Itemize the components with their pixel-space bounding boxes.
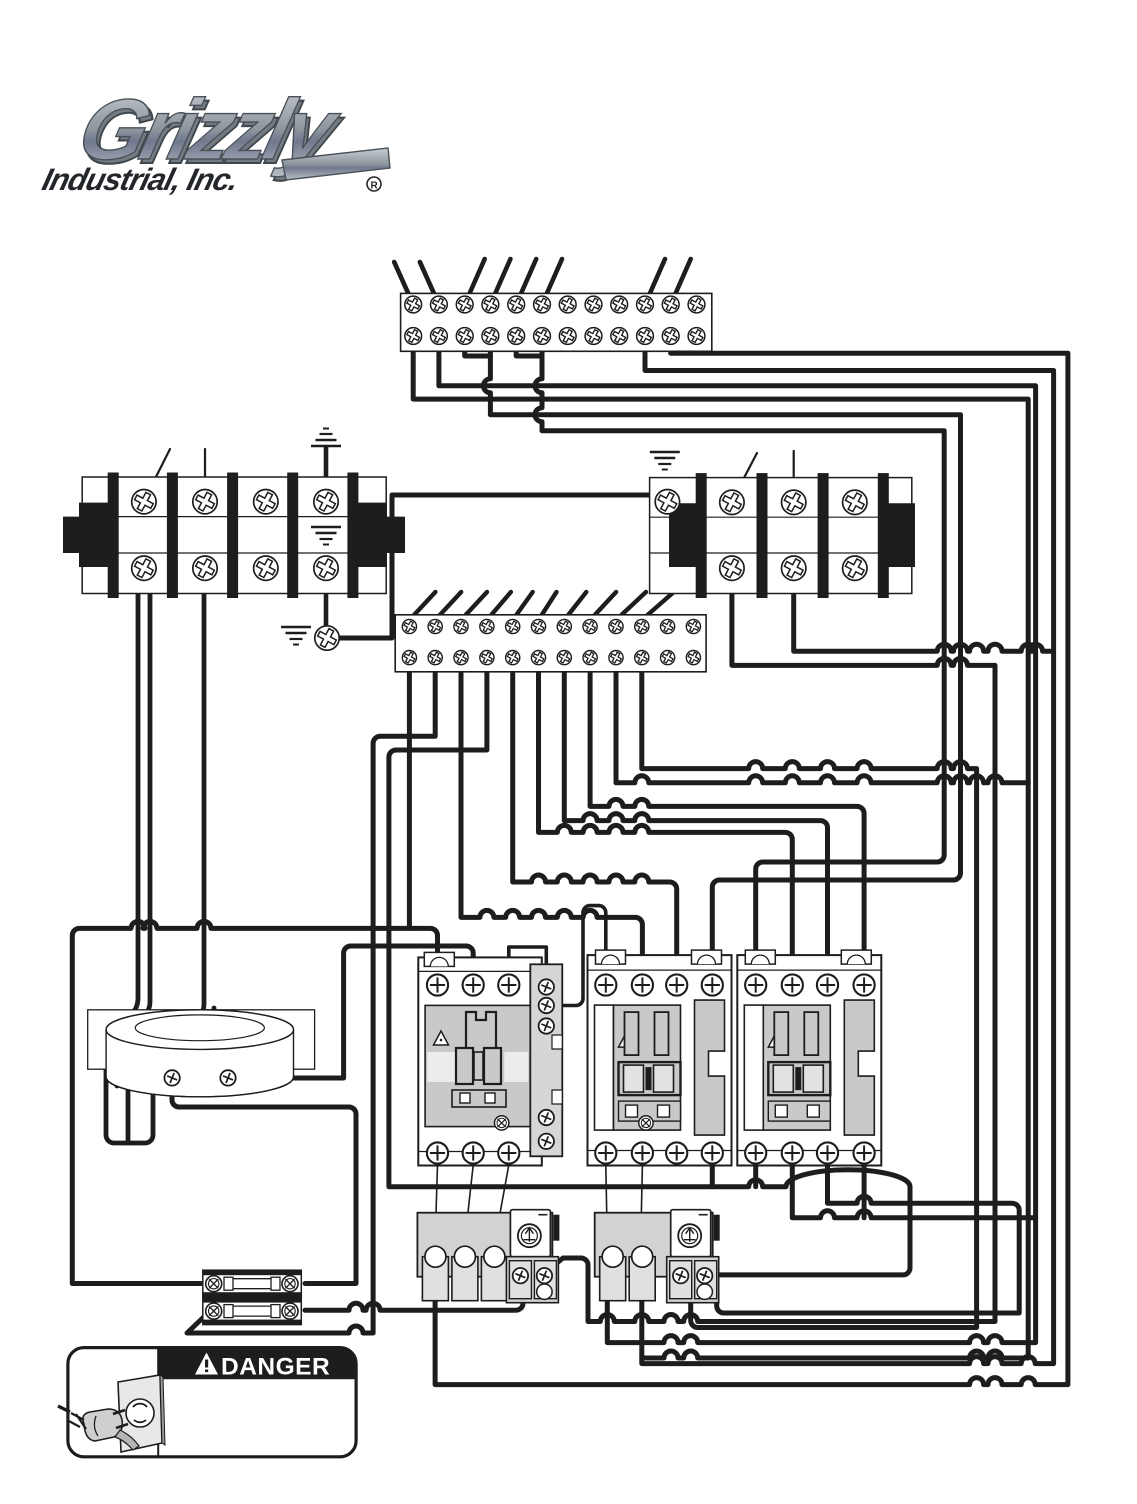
wire primary 3 [128,580,204,1086]
K2 terminals [595,974,616,995]
Grizzly Industrial logo [39,81,390,197]
wire K1 to OL1 [435,1165,437,1243]
contactor K3 [737,950,881,1165]
wire lead-in [487,592,511,620]
wire TB-R2 to OL1 95 [546,593,995,1322]
ground symbol at chassis screw [281,627,311,645]
wire lead-in [490,259,510,305]
wire ground bus [339,495,652,638]
wire lead-in [435,592,461,620]
wire TB10 to OL2 hole2 [642,336,1054,1364]
wire MS3 to K2 L2 [461,658,642,985]
wire primary 1 [106,580,138,1086]
wire TB2 to OL2 hole1 [439,336,1036,1343]
wire ground lead [324,447,329,490]
wire lead-in [516,259,536,305]
TB-L mount tabs [63,517,82,553]
K3 terminals [745,974,766,995]
wire K1 L3 to aux [509,947,547,985]
wire MS5 to K2 L3 [513,658,677,985]
wire K3 T3 to OL2 96 [700,1153,1019,1313]
ground symbol above TB-L col4 [311,429,341,447]
wire lead-in [542,259,562,305]
wire lead-in [642,592,674,620]
wire MS8 to K3 L4 [590,658,864,985]
wire K2 to OL2 [606,1165,608,1243]
wire lead-in [461,592,487,620]
wire winding loop [106,1086,153,1143]
wire primary 2 [117,580,150,1086]
ground symbol TB-L mid [311,527,341,545]
overload relay OL1 [417,1115,559,1303]
wire lead-in [513,592,533,620]
wire MS2 to fuse2 [187,658,435,1333]
wire TB-R3 tie [794,593,1054,651]
wire lead-in [394,262,413,305]
transformer T1 [88,1010,315,1097]
ground symbol above TB-R [650,452,680,470]
fuse F2 [203,1298,301,1325]
wire K3 T4 drop [862,1153,867,1218]
DANGER warning label [68,1348,356,1457]
terminal block TB-A [401,293,712,351]
wire XFMR S2 to K1 L2 [240,946,473,1078]
wire lead-in [616,592,646,620]
wire TB4 to K2 A4 [483,336,960,985]
wire K3 T2 drop [792,1153,1035,1218]
plug and outlet art [58,1375,165,1452]
terminal block TB-L [79,473,387,599]
fuse F1 [203,1270,301,1297]
wire lead-in [539,592,557,620]
wire lead-in [420,262,439,305]
wire K2 to OL2 [641,1165,643,1243]
K1 terminals [427,974,448,995]
contactor K1 [418,952,542,1165]
chassis ground screw [315,626,340,651]
TB-R ground screw [655,489,680,514]
svg-text:DANGER: DANGER [221,1353,330,1380]
terminal block TB-R [650,473,915,598]
wire lead-in [465,259,485,305]
wire K3 T1 drop [753,1153,758,1187]
wire K1 to OL1 [465,1165,474,1243]
wire MS4 to OL2 95 [389,658,910,1275]
wire lead-in [732,453,757,501]
wire TB3 jumper [465,336,491,356]
wire lead-in [590,592,616,620]
wire TB11 to OL1 hole1 [435,336,1068,1385]
svg-text:Industrial, Inc.: Industrial, Inc. [39,162,242,196]
wire K2 T4 drop [710,1153,715,1187]
overload relay OL2 [595,1115,720,1303]
wire ground lead 2 [324,580,329,627]
wire lead-in [645,259,665,305]
wire TB1 trunk [413,336,1028,1358]
wire MS9 trunk join [616,658,1028,783]
wire lead-in [793,451,795,489]
wire MS7 to K3 L3 [564,658,827,985]
terminal block TB-B [395,615,706,672]
svg-text:R: R [371,181,379,192]
wire lead-in [671,259,691,305]
wire branch to K1 L1 [409,928,437,985]
aux contact block K1 [530,964,562,1156]
wire winding strand 2 [126,1086,131,1143]
contactor K2 [588,950,732,1165]
wire aux to K2 L1 [546,906,606,1006]
wire lead-in [204,449,206,489]
wire TB5 jumper [516,336,542,356]
wire lead-in [144,449,170,501]
wire fuse2 to OL1 96 [305,1290,523,1310]
wire lead-in [409,592,435,620]
wire lead-in [564,592,586,620]
wire winding strand [139,1008,214,1086]
wire MS6 to K3 L2 [539,658,793,985]
wire TB6 to K3 T1 [535,336,944,985]
wire MS10 to OL2 98 [642,658,977,1328]
wire K1 to OL1 [495,1165,509,1243]
wire XFMR S1 to fuse1 [172,1085,356,1284]
wire MS1 to fuse1 [72,658,409,1284]
